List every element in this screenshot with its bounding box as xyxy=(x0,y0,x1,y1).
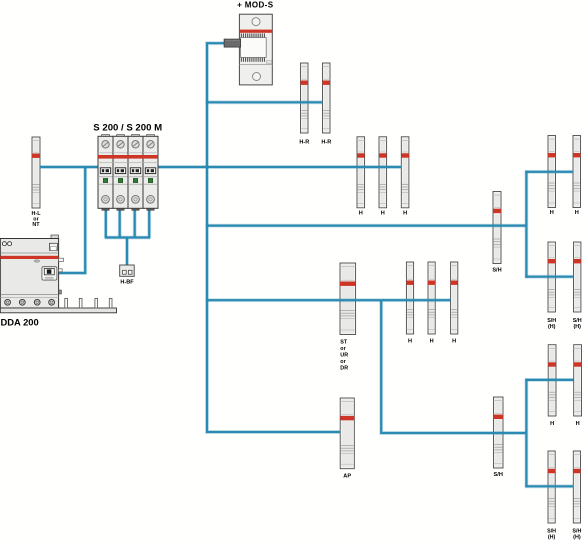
svg-text:H-BF: H-BF xyxy=(120,279,134,285)
wire drop to H-BF xyxy=(125,238,129,266)
auxiliary contact H (3) xyxy=(401,137,409,208)
label "S 200 / S 200 M" xyxy=(93,122,162,133)
residual current block DDA 200 xyxy=(0,235,116,313)
svg-text:H: H xyxy=(359,211,363,217)
svg-text:UR: UR xyxy=(340,353,348,359)
auxiliary contact H (2) xyxy=(379,137,387,208)
auxiliary contact H (n3) xyxy=(451,262,458,334)
svg-text:NT: NT xyxy=(32,222,40,228)
label "H" xyxy=(408,339,412,345)
svg-text:S/H: S/H xyxy=(492,268,501,274)
signal contact S/H (H) (B1) xyxy=(548,451,555,523)
label "AP" xyxy=(343,474,351,480)
auxiliary contact H-L/NT xyxy=(32,137,40,208)
bottom-fitting auxiliary contact H-BF xyxy=(120,265,135,276)
svg-text:ST: ST xyxy=(340,340,348,346)
wire branch to S/H upper xyxy=(206,224,527,228)
label "DDA 200" xyxy=(1,317,39,328)
svg-text:AP: AP xyxy=(343,474,351,480)
wire main line S200 row xyxy=(40,165,401,169)
svg-text:DR: DR xyxy=(340,366,348,372)
wire branch through ST xyxy=(206,298,451,302)
label "H" xyxy=(452,339,456,345)
svg-text:H: H xyxy=(575,210,579,216)
label "H" xyxy=(550,210,554,216)
wire pole bus xyxy=(105,236,151,240)
svg-text:(H): (H) xyxy=(548,535,556,540)
label "H" xyxy=(575,210,579,216)
label "S/H" xyxy=(492,268,501,274)
wire subtree B upper branch xyxy=(525,378,573,382)
label "+ MOD-S" xyxy=(237,0,274,9)
label "H-R" xyxy=(321,140,331,146)
label "S/H (H)" xyxy=(572,529,581,540)
label "S/H (H)" xyxy=(547,529,556,540)
svg-text:DDA 200: DDA 200 xyxy=(1,317,39,328)
svg-text:H-R: H-R xyxy=(299,140,309,146)
label "S/H" xyxy=(494,472,503,478)
svg-text:or: or xyxy=(340,359,346,365)
auxiliary contact H (B2) xyxy=(574,345,582,416)
signal/auxiliary contact S/H (upper) xyxy=(493,192,501,264)
label "H" xyxy=(381,211,385,217)
svg-text:(H): (H) xyxy=(573,535,581,540)
auxiliary contact H (n1) xyxy=(406,262,413,334)
signalling module MOD-S xyxy=(224,14,272,85)
svg-text:H: H xyxy=(576,421,580,427)
wire pole 1 drop xyxy=(104,209,108,238)
svg-text:H: H xyxy=(452,339,456,345)
label "H-BF" xyxy=(120,279,134,285)
wire branch to H-R xyxy=(206,100,323,104)
auxiliary contact H (1) xyxy=(357,137,365,208)
svg-text:H: H xyxy=(550,421,554,427)
label "H" xyxy=(550,421,554,427)
wire MOD-S feed xyxy=(207,43,340,432)
svg-text:H: H xyxy=(430,339,434,345)
svg-text:H: H xyxy=(550,210,554,216)
auxiliary contact H (n2) xyxy=(428,262,435,334)
label "H-L or NT" xyxy=(32,211,42,228)
MOD-S plug connector xyxy=(224,39,241,47)
signal contact S/H (H) (B2) xyxy=(573,451,580,523)
label "S/H (H)" xyxy=(547,318,556,330)
svg-text:+ MOD-S: + MOD-S xyxy=(237,0,274,9)
auxiliary contact H-R (left) xyxy=(301,63,309,133)
label "H" xyxy=(359,211,363,217)
wire pole 4 drop xyxy=(147,209,151,238)
label "H" xyxy=(576,421,580,427)
wire subtree A lower branch xyxy=(525,275,573,279)
label "H" xyxy=(430,339,434,345)
svg-text:S/H: S/H xyxy=(494,472,503,478)
wire vertical subtree A xyxy=(525,171,529,278)
auxiliary contact H-R (right) xyxy=(323,63,331,133)
svg-text:H-R: H-R xyxy=(321,140,331,146)
svg-text:H: H xyxy=(381,211,385,217)
wire subtree A upper branch xyxy=(525,170,573,174)
remote operator AP xyxy=(340,398,354,469)
svg-text:H: H xyxy=(408,339,412,345)
svg-text:(H): (H) xyxy=(548,324,556,330)
DDA 200 base plate xyxy=(0,308,116,313)
signal contact S/H (H) (A2) xyxy=(574,242,581,312)
svg-text:H: H xyxy=(403,211,407,217)
auxiliary contact H (A1) xyxy=(548,136,556,208)
wire vertical to lower subtree xyxy=(381,300,526,433)
auxiliary contact H (A2) xyxy=(573,136,581,208)
svg-text:or: or xyxy=(340,346,346,352)
wire pole 3 drop xyxy=(133,209,137,238)
label "ST or UR or DR" xyxy=(340,340,348,372)
wire subtree B lower branch xyxy=(525,484,573,488)
label "S/H (H)" xyxy=(573,318,582,330)
signal contact S/H (H) (A1) xyxy=(548,242,555,312)
label "H" xyxy=(403,211,407,217)
label "H-R" xyxy=(299,140,309,146)
signal/auxiliary contact S/H (lower) xyxy=(494,397,504,468)
wire pole 2 drop xyxy=(118,209,122,238)
wire vertical subtree B xyxy=(525,379,529,488)
miniature circuit breaker S 200 / S 200 M (4-pole) xyxy=(98,135,158,211)
wire DDA 200 connection xyxy=(59,167,85,273)
shunt trip ST/UR/DR xyxy=(340,263,356,335)
svg-text:S 200 / S 200 M: S 200 / S 200 M xyxy=(93,122,162,133)
auxiliary contact H (B1) xyxy=(548,345,556,416)
svg-text:(H): (H) xyxy=(573,324,581,330)
